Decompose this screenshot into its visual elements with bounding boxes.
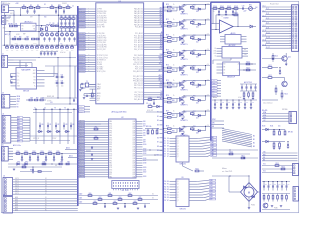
wire U1 left pin 9 [78, 26, 96, 28]
wire U4 left pin 0 [78, 121, 109, 123]
svg-text:D6: D6 [167, 153, 169, 155]
svg-text:C30: C30 [56, 75, 59, 77]
svg-text:QB7: QB7 [210, 199, 213, 201]
wire J10 row 12 [262, 35, 292, 37]
caps above max232 [21, 67, 23, 69]
svg-text:R71: R71 [166, 19, 169, 21]
wire U4 right pin 0 [136, 121, 143, 123]
capacitor C4 [63, 10, 65, 12]
capacitor Cf0 [241, 86, 243, 88]
capacitor C50 [279, 70, 281, 72]
wire U1 left pin 13 [78, 39, 96, 41]
wire f verticals top [212, 9, 214, 25]
resistor R102 [227, 8, 231, 10]
wire mid column extras [146, 111, 163, 113]
svg-text:Q3: Q3 [177, 146, 179, 148]
svg-text:Q6B: Q6B [132, 172, 135, 174]
svg-text:PF5: PF5 [109, 133, 112, 135]
resistor R110 [229, 153, 233, 155]
svg-text:LN5: LN5 [143, 133, 146, 135]
wire U4 right pin 7 [136, 137, 143, 139]
resistor R42 bottom band [66, 47, 69, 49]
svg-text:SCK_OUT: SCK_OUT [147, 110, 154, 112]
svg-text:R27: R27 [27, 36, 30, 38]
bus divider center x163 [162, 2, 164, 212]
resistor R5 [58, 7, 62, 9]
capacitor C41 [47, 125, 49, 127]
svg-text:D25: D25 [196, 87, 199, 89]
wire U1 left pin 5 [78, 17, 96, 19]
svg-text:T1IN: T1IN [17, 85, 20, 87]
svg-text:C42: C42 [222, 102, 225, 104]
f top row parts [211, 8, 256, 10]
svg-text:Q1B: Q1B [132, 142, 135, 144]
svg-text:CS0: CS0 [212, 90, 215, 92]
wire U4 left pin 10 [78, 144, 109, 146]
wire f mid vertical link [230, 58, 232, 60]
svg-text:1N5822: 1N5822 [62, 3, 67, 5]
svg-text:TX: TX [17, 104, 19, 106]
wire U4 left pin 9 [78, 141, 109, 143]
svg-text:K6: K6 [45, 190, 47, 192]
wire U4 left pin 2 [78, 125, 109, 127]
svg-text:M2: M2 [253, 143, 255, 145]
wire U1 right pin 18 [144, 55, 164, 57]
wire U8 out 4 [189, 148, 203, 150]
u1 reset cluster right-bottom [148, 99, 152, 101]
svg-text:PD6_T1 28: PD6_T1 28 [135, 66, 143, 68]
svg-text:29 TOSC2_PG3: 29 TOSC2_PG3 [97, 55, 108, 57]
svg-text:E0: E0 [167, 181, 169, 183]
svg-text:RXD: RXD [263, 154, 266, 156]
wire y164 [8, 163, 78, 165]
svg-text:R22: R22 [61, 32, 64, 34]
u4 left small parts [94, 128, 98, 130]
svg-text:Q3B: Q3B [132, 128, 135, 130]
feedback resistor [234, 14, 238, 16]
wire U1 right pin 22 [144, 64, 164, 66]
resistor R61 [108, 195, 112, 197]
capacitor C1 [26, 10, 28, 12]
svg-text:VCC: VCC [97, 100, 100, 102]
wire motor top rail [212, 175, 249, 177]
svg-text:+24: +24 [207, 64, 209, 66]
svg-text:DO: DO [244, 49, 246, 51]
svg-text:C63: C63 [278, 184, 281, 186]
net flag left 4 [79, 15, 86, 17]
capacitor C42 [55, 125, 57, 127]
svg-text:R25: R25 [14, 36, 17, 38]
svg-text:R130: R130 [262, 126, 265, 128]
resistor R12 [68, 18, 71, 20]
svg-text:IO_17: IO_17 [266, 47, 270, 49]
svg-text:+24: +24 [207, 49, 209, 51]
svg-text:RXD1: RXD1 [159, 56, 163, 58]
wire U4 left pin 17 [78, 160, 109, 162]
wire g rails [212, 149, 258, 151]
wire mid h2 [45, 65, 78, 67]
svg-text:R124: R124 [285, 94, 288, 96]
u4 right lower wires [143, 149, 164, 151]
svg-text:R75: R75 [166, 80, 169, 82]
svg-text:Q1: Q1 [177, 141, 179, 143]
svg-text:MOSFET N: MOSFET N [181, 44, 188, 46]
svg-text:Q5B: Q5B [132, 133, 135, 135]
capacitor C61 [124, 205, 126, 207]
svg-text:B1: B1 [157, 116, 159, 118]
svg-text:OUT: OUT [32, 25, 35, 27]
resistor R18 [41, 34, 44, 36]
net flag left 23 [79, 66, 86, 68]
wire U4 left pin 5 [78, 132, 109, 134]
wire I mid 2 [262, 157, 298, 159]
svg-text:J6: J6 [3, 176, 5, 178]
svg-text:PB7_M: PB7_M [80, 136, 84, 138]
svg-text:R51: R51 [95, 127, 98, 129]
capacitor C23 bank [50, 52, 52, 54]
svg-text:R32: R32 [16, 50, 19, 52]
svg-text:R44: R44 [61, 161, 64, 163]
svg-text:PB1_M: PB1_M [80, 123, 84, 125]
svg-text:23 MOSI_PB2: 23 MOSI_PB2 [97, 38, 107, 40]
svg-text:C13: C13 [72, 29, 75, 31]
svg-text:MP 485: MP 485 [288, 132, 293, 134]
bus ripper fan g [222, 129, 252, 135]
isp header J8 [112, 181, 139, 189]
svg-text:OUT4: OUT4 [15, 188, 19, 190]
wire U4 left pin 12 [78, 148, 109, 150]
svg-text:SCL: SCL [160, 48, 163, 50]
svg-text:QB3: QB3 [210, 188, 213, 190]
svg-text:R111: R111 [241, 156, 244, 158]
svg-text:R32: R32 [33, 151, 36, 153]
svg-text:IO_13: IO_13 [266, 37, 270, 39]
wire I mid 3 [262, 160, 298, 162]
svg-text:R26: R26 [19, 36, 22, 38]
svg-text:+5V: +5V [263, 120, 265, 122]
regulator U2 LM2596 [21, 23, 37, 31]
svg-text:IO_1: IO_1 [266, 8, 269, 10]
wire U4 right pin 15 [136, 155, 143, 157]
net flag left 25 [79, 71, 86, 73]
wire U1 right pin 31 [144, 87, 164, 89]
capacitor C22 avcc [85, 95, 87, 97]
wire bus stub 6 [160, 137, 164, 139]
wire U8 in 4 [170, 148, 177, 150]
adc out wires [65, 149, 78, 151]
svg-text:17 OC3B_PE4: 17 OC3B_PE4 [97, 20, 107, 22]
svg-text:R45: R45 [68, 161, 71, 163]
svg-text:DE: DE [263, 157, 265, 159]
svg-text:PC0: PC0 [109, 140, 112, 142]
resistor R17 [72, 27, 75, 29]
wire J11 row 3 [262, 120, 289, 122]
svg-text:Q3B: Q3B [132, 146, 135, 148]
wire mid h1 [38, 57, 76, 59]
svg-text:PC0_M: PC0_M [80, 139, 84, 141]
wire U4 right pin 8 [136, 139, 143, 141]
u4 right cluster resistors [147, 130, 149, 134]
wire U8 out 5 [189, 151, 204, 153]
svg-text:PC4: PC4 [109, 167, 112, 169]
boxes right of u2 [51, 25, 54, 27]
resistor R64 [118, 199, 122, 201]
svg-text:R31: R31 [25, 151, 28, 153]
svg-text:D0: D0 [167, 138, 169, 140]
svg-text:W0: W0 [164, 181, 166, 183]
capacitor C18 [63, 38, 65, 40]
box pair mid band3 [32, 38, 35, 40]
svg-text:LN8: LN8 [143, 139, 146, 141]
resistor R11 [64, 18, 67, 20]
wire U9 in 5 [170, 194, 177, 196]
cap bank y53 [40, 51, 58, 53]
svg-text:R68: R68 [134, 201, 137, 203]
diode D3 [39, 130, 41, 132]
capacitor C32f [232, 11, 234, 13]
svg-text:TXD: TXD [263, 152, 266, 154]
svg-text:MOSFET N: MOSFET N [181, 59, 188, 61]
svg-text:RS485_EN: RS485_EN [47, 96, 54, 98]
wire J6 out 6 [13, 193, 78, 195]
svg-text:SCL_PD0: SCL_PD0 [79, 71, 85, 73]
wire U4 right pin 20 [136, 167, 143, 169]
svg-text:RV1: RV1 [249, 5, 252, 7]
wire U1 right pin 32 [144, 92, 164, 94]
wires upper t-row [33, 109, 78, 111]
svg-text:LN6: LN6 [143, 135, 146, 137]
wire U8 in 1 [170, 140, 177, 142]
wire g stubs top [211, 120, 224, 122]
resistor R30 [16, 153, 20, 155]
svg-text:31 RESET_N: 31 RESET_N [97, 60, 106, 62]
svg-text:+24: +24 [207, 125, 209, 127]
svg-text:S1: S1 [164, 140, 166, 142]
wire J10 row 11 [266, 33, 292, 35]
wire U1 right pin 4 [144, 15, 164, 17]
svg-text:GND1: GND1 [79, 111, 83, 113]
connector J6 outputs [3, 178, 13, 196]
svg-text:+24: +24 [207, 34, 209, 36]
resistor R140i [263, 195, 265, 199]
svg-text:R33: R33 [41, 151, 44, 153]
net flag left 10 [79, 33, 86, 35]
wire y136 rail [30, 135, 78, 137]
wire U1 right pin 14 [144, 42, 164, 44]
svg-text:PB5: PB5 [109, 151, 112, 153]
svg-text:T2: T2 [161, 68, 163, 70]
resistor R38 bottom band [46, 47, 49, 49]
svg-text:RE: RE [263, 160, 265, 162]
resistor R43 bottom band [71, 47, 74, 49]
capacitor C47 [250, 103, 252, 105]
wire bus stub 4 [160, 128, 164, 130]
svg-text:104: 104 [56, 86, 58, 88]
svg-text:PD3_TXD1 31: PD3_TXD1 31 [133, 60, 143, 62]
resistor R145i [286, 195, 288, 199]
wire U1 right pin 26 [144, 76, 164, 78]
connector J3 [2, 95, 10, 109]
svg-text:D4: D4 [167, 148, 169, 150]
svg-text:R100: R100 [213, 6, 217, 8]
svg-text:R84: R84 [172, 70, 175, 72]
svg-text:RE: RE [224, 67, 226, 69]
capacitor C48 [45, 156, 47, 158]
wire U1 right pin 20 [144, 59, 164, 61]
svg-text:C2: C2 [72, 6, 74, 8]
wire U1 left pin 4 [78, 15, 96, 17]
svg-text:PE6: PE6 [109, 172, 112, 174]
svg-text:PGND: PGND [274, 208, 278, 210]
svg-text:R65: R65 [139, 197, 142, 199]
wire U4 right pin 22 [136, 171, 143, 173]
capacitor C31f [225, 11, 227, 13]
svg-text:R120: R120 [275, 56, 278, 58]
wire U1 right pin 29 [144, 82, 164, 84]
svg-text:CH1: CH1 [213, 53, 216, 55]
wire U1 left pin 25 [78, 70, 96, 72]
svg-text:B8: B8 [157, 146, 159, 148]
wire U4 left pin 4 [78, 130, 109, 132]
svg-text:VIN: VIN [6, 21, 8, 23]
svg-text:Q1B: Q1B [132, 123, 135, 125]
wire U4 right pin 14 [136, 153, 143, 155]
capacitor C32 [61, 76, 63, 78]
svg-text:IC3_PE7: IC3_PE7 [79, 27, 84, 29]
capacitor C50 [61, 156, 63, 158]
wire J10 row 0 [262, 6, 292, 8]
vertical x58 [57, 58, 59, 99]
svg-text:PD1: PD1 [109, 142, 112, 144]
resistor R31 [24, 153, 28, 155]
wire U4 right pin 24 [136, 176, 143, 178]
capacitor C63i [276, 185, 278, 187]
wire U9 in 1 [170, 183, 177, 185]
svg-text:Q7B: Q7B [132, 156, 135, 158]
wire U4 right pin 9 [136, 141, 143, 143]
svg-text:LN18: LN18 [143, 162, 146, 164]
diode D6 [66, 130, 68, 132]
capacitor C44 [232, 103, 234, 105]
svg-text:IN6: IN6 [18, 133, 20, 135]
wire U1 left pin 2 [78, 10, 96, 12]
mcu U1 left bottom pins [90, 84, 96, 86]
adc U7 block [222, 47, 242, 59]
svg-text:IO_8: IO_8 [263, 25, 266, 27]
resistor R30 aref [91, 93, 93, 97]
wire U4 left pin 6 [78, 134, 109, 136]
svg-text:T1: T1 [161, 66, 163, 68]
bridge diodes [244, 186, 246, 188]
svg-text:E7: E7 [167, 200, 169, 202]
svg-text:DE: DE [224, 70, 226, 72]
wire U4 right pin 6 [136, 134, 143, 136]
svg-text:PD5_XCK1 29: PD5_XCK1 29 [133, 64, 143, 66]
svg-text:C41: C41 [49, 124, 52, 126]
resistor R66 [93, 203, 97, 205]
wire U1 left pin 15 [78, 44, 96, 46]
svg-text:C46: C46 [246, 102, 249, 104]
svg-text:PC2: PC2 [109, 126, 112, 128]
connector J1B aux [2, 16, 6, 25]
wire U9 out 0 [189, 181, 197, 183]
driver cell 6 [163, 79, 211, 91]
wire U9 in 4 [170, 191, 177, 193]
wire U1 right pin 16 [144, 46, 164, 48]
svg-text:R107: R107 [246, 68, 249, 70]
svg-text:REF: REF [23, 34, 26, 36]
svg-text:Q4: Q4 [177, 192, 179, 194]
bottom rail 2 [78, 199, 158, 201]
connector J1 power in [2, 5, 9, 13]
wire U1 left pin 18 [78, 55, 96, 57]
svg-text:IN4: IN4 [18, 128, 20, 130]
svg-text:R66: R66 [94, 201, 97, 203]
capacitor C47 [37, 156, 39, 158]
svg-text:IO_5: IO_5 [266, 18, 269, 20]
svg-text:K3: K3 [45, 183, 47, 185]
resistor R107 [246, 69, 250, 71]
svg-text:TCK: TCK [160, 82, 163, 84]
wire U4 left pin 22 [78, 171, 109, 173]
wire U1 right pin 24 [144, 68, 164, 70]
svg-text:LN0: LN0 [143, 121, 146, 123]
resistor R32 bottom band [16, 47, 19, 49]
capacitor C43 [63, 125, 65, 127]
svg-text:36 SCL_PD0: 36 SCL_PD0 [97, 71, 106, 73]
svg-text:PE4: PE4 [109, 130, 112, 132]
pre-u4 stub rows [79, 106, 85, 108]
svg-text:PB5_M: PB5_M [80, 150, 84, 152]
resistor R41 bottom band [61, 47, 64, 49]
resistor R33 [40, 153, 44, 155]
driver cell 8 [163, 110, 211, 122]
svg-text:Q0B: Q0B [132, 140, 135, 142]
svg-text:Q0: Q0 [177, 138, 179, 140]
svg-text:K1: K1 [45, 178, 47, 180]
svg-text:D3: D3 [167, 146, 169, 148]
svg-text:C32: C32 [61, 75, 64, 77]
wire J10 row 2 [262, 11, 292, 13]
wire u2 out [36, 25, 46, 27]
wire U8 in 3 [170, 145, 177, 147]
svg-text:R78: R78 [166, 126, 169, 128]
svg-text:C44: C44 [255, 7, 258, 9]
svg-text:MOSFET N: MOSFET N [181, 29, 188, 31]
wire J6 out 1 [13, 181, 78, 183]
wire U4 left pin 11 [78, 146, 109, 148]
svg-text:S7: S7 [164, 156, 166, 158]
wire J6 out 2 [13, 183, 78, 185]
capacitor C20 bank [40, 52, 42, 54]
svg-text:PF7_TDI 19: PF7_TDI 19 [135, 92, 143, 94]
svg-text:R76: R76 [166, 95, 169, 97]
svg-text:PE0_M: PE0_M [80, 157, 84, 159]
resistor R100 [213, 8, 217, 10]
wire U1 right pin 34 [144, 96, 164, 98]
resistor R19 [46, 34, 49, 36]
wire U1 right pin 12 [144, 37, 164, 39]
svg-text:+24: +24 [207, 3, 209, 5]
trimmer RV1 [249, 7, 253, 11]
net flag left 9 [79, 26, 86, 28]
svg-text:D22: D22 [196, 42, 199, 44]
resistor R111 [241, 157, 245, 159]
svg-text:R11: R11 [149, 104, 152, 106]
svg-text:IN5: IN5 [18, 130, 20, 132]
svg-text:IO_2: IO_2 [263, 10, 266, 12]
svg-text:Q2: Q2 [177, 186, 179, 188]
